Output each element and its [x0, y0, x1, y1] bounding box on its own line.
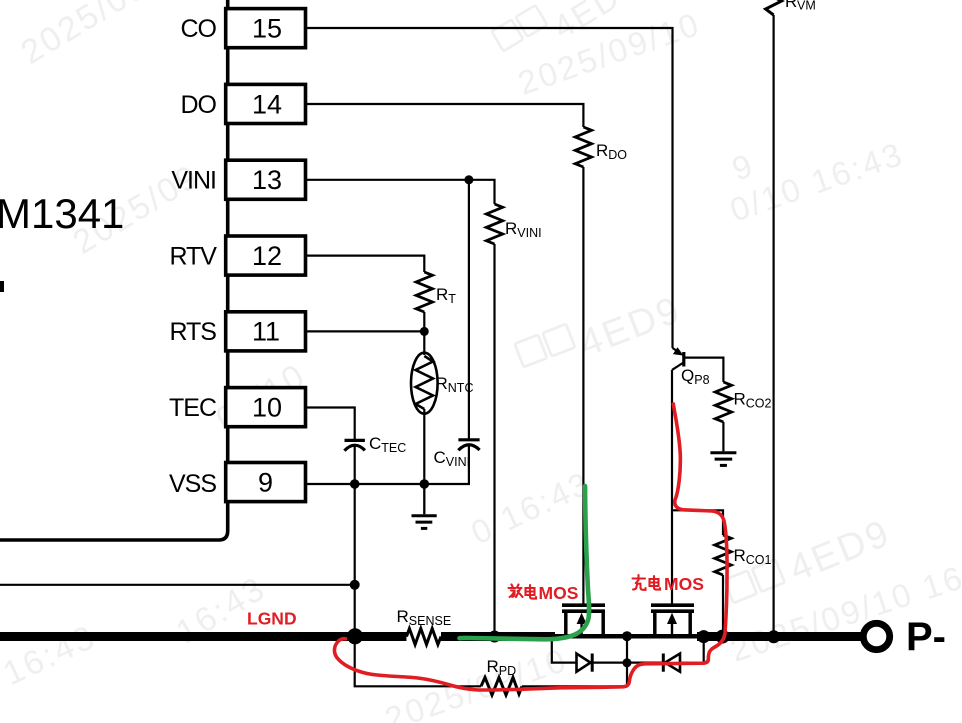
red annotation line: [334, 404, 727, 690]
svg-text:RTV: RTV: [169, 242, 217, 270]
wire RTS pin11 net: [306, 330, 425, 332]
node RVINI bus junction: [489, 631, 501, 643]
node VINI junction: [464, 175, 473, 184]
svg-text:RTS: RTS: [169, 318, 216, 346]
wire CTEC down through VSS to LGND bus: [354, 446, 356, 642]
node between diodes: [623, 658, 632, 667]
wire RTV pin12 net: [306, 256, 425, 272]
wire RPD branch: [355, 641, 481, 686]
svg-text:CO: CO: [181, 15, 217, 43]
node RTS junction: [420, 327, 429, 336]
resistor RT: [416, 272, 432, 312]
resistor RDO: [575, 127, 591, 167]
wire QP8 emitter down to gate of charge MOS: [671, 370, 673, 604]
wire RVM down to bus: [772, 15, 774, 637]
svg-text:LGND: LGND: [247, 609, 297, 629]
svg-text:14: 14: [252, 89, 282, 119]
pin 13 box: [226, 160, 306, 199]
svg-text:10: 10: [252, 393, 282, 423]
wire RCO1 to bus: [722, 575, 724, 637]
svg-text:VSS: VSS: [169, 470, 216, 498]
label charge MOS (chong dian MOS): [633, 575, 661, 590]
pin 14 box: [226, 84, 306, 123]
thermistor RNTC: [411, 353, 473, 414]
svg-text:M1341: M1341: [0, 190, 124, 237]
svg-text:12: 12: [252, 241, 282, 271]
resistor RSENSE: [407, 629, 442, 645]
svg-text:TEC: TEC: [169, 394, 217, 422]
svg-text:R: R: [785, 0, 797, 11]
node y585 junction: [350, 580, 360, 590]
wire RVINI down to LGND bus: [493, 244, 495, 637]
diode D1: [577, 654, 591, 672]
wire RDO to gate of discharge MOS: [582, 167, 584, 604]
resistor RCO1: [715, 535, 731, 575]
wire RTS to RNTC: [423, 331, 425, 355]
wire RPD to diode node: [522, 685, 627, 687]
wire DO pin14 net: [306, 104, 584, 127]
node RVM bus junction: [767, 630, 780, 643]
wire RCO2 to ground: [722, 422, 724, 451]
wire RNTC to VSS wire: [423, 409, 425, 484]
svg-text:MOS: MOS: [664, 574, 704, 594]
IC chip body DM1341: [0, 0, 228, 540]
pin 9 box: [226, 463, 306, 502]
svg-text:9: 9: [258, 467, 273, 497]
wire RCO1 top branch: [672, 510, 723, 535]
pin 11 box: [226, 312, 306, 351]
node between-MOS bus junction: [622, 631, 632, 641]
MOS bottom bar: [554, 634, 700, 639]
wire VSS pin9 net: [306, 445, 469, 484]
pin 10 box: [226, 388, 306, 427]
svg-text:11: 11: [252, 317, 280, 347]
green annotation line: [460, 486, 590, 639]
wire horizontal net from left at y585: [0, 584, 355, 586]
wire TEC pin10 net: [306, 408, 355, 440]
wire CO pin15 net: [306, 28, 673, 348]
svg-text:MOS: MOS: [539, 583, 579, 603]
wire RT to RTS node: [423, 312, 425, 331]
body diode branch wires: [552, 641, 577, 663]
LGND bus thick segment B: [441, 632, 555, 641]
discharge MOSFET: [562, 605, 605, 637]
svg-text:P-: P-: [906, 615, 946, 659]
bus thick segment C to P-: [697, 632, 861, 641]
charge MOSFET: [651, 605, 694, 637]
LGND bus thick segment A: [0, 632, 407, 641]
svg-text:13: 13: [252, 165, 282, 195]
stray mark at left edge: [0, 281, 4, 292]
wire VINI to CVINI: [468, 180, 470, 439]
capacitor CTEC: [344, 434, 406, 455]
wire VINI pin13 net: [306, 180, 495, 204]
node VSS-RNTC junction: [420, 479, 430, 489]
transistor QP8: [672, 347, 709, 387]
ground under RCO2: [710, 453, 736, 466]
svg-text:15: 15: [252, 14, 282, 44]
terminal P-: [863, 623, 889, 649]
svg-text:DO: DO: [181, 91, 217, 119]
resistor RCO2: [715, 382, 731, 422]
capacitor CVINI: [434, 440, 480, 469]
resistor RVM top right (clipped): [766, 0, 782, 15]
resistor RPD: [481, 678, 522, 696]
wire between-MOS node down to diode node: [626, 636, 628, 686]
pin 12 box: [226, 236, 306, 275]
node diode right bus junction: [697, 630, 710, 643]
svg-text:VM: VM: [797, 0, 816, 13]
resistor RVINI: [486, 204, 502, 244]
label discharge MOS (fang dian MOS): [509, 585, 537, 599]
pin 15 box: [226, 9, 306, 48]
ground under RNTC: [412, 484, 437, 528]
diode D2: [665, 654, 680, 672]
wire QP8 base to RCO2: [684, 358, 724, 382]
node LGND junction: [347, 628, 363, 644]
svg-text:VINI: VINI: [171, 167, 216, 195]
node VSS-CTEC junction: [350, 479, 360, 489]
node RCO1 bus junction: [716, 630, 730, 644]
